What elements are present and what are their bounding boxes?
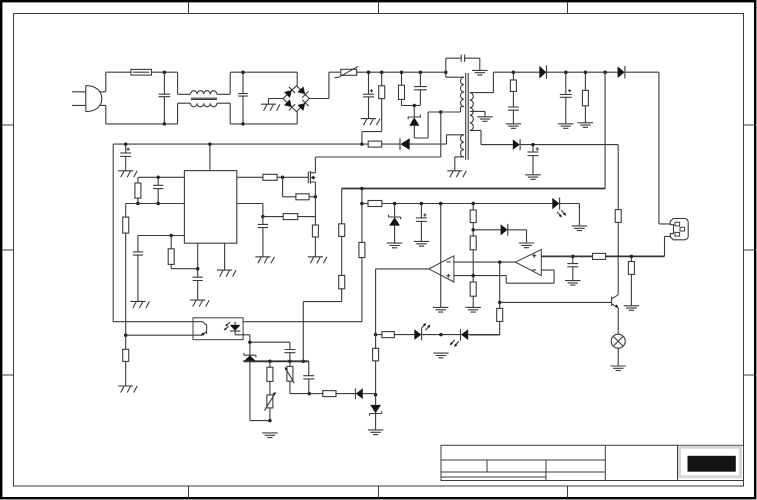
resistor R10 bbox=[168, 236, 198, 269]
diode D6 bbox=[355, 388, 375, 399]
resistor R27 bbox=[376, 332, 415, 338]
ground tap bbox=[477, 117, 492, 122]
wire opto cathode bbox=[243, 335, 250, 342]
diode D1 clamp zener bbox=[408, 106, 441, 139]
wire bottom AC bbox=[106, 123, 178, 125]
wire secondary top lead bbox=[470, 72, 514, 92]
node out LED bbox=[374, 333, 378, 337]
wire U1 bottom pin2 bbox=[224, 243, 226, 270]
resistor R21 bbox=[359, 242, 365, 321]
resistor R26 bbox=[469, 302, 502, 335]
trimmer RV1 bbox=[264, 392, 276, 421]
ground C14 bbox=[414, 241, 429, 246]
resistor R8 bbox=[135, 177, 141, 203]
trimmer RV2 bbox=[285, 361, 310, 393]
title block bbox=[441, 445, 744, 480]
capacitor C13 bbox=[303, 361, 314, 393]
ground R25 bbox=[466, 307, 481, 312]
ground (earth) C10 bbox=[190, 300, 209, 307]
resistor R11 gate bbox=[263, 174, 308, 180]
wire drain to winding bbox=[441, 107, 464, 112]
diode D2 output bbox=[513, 66, 617, 79]
divider chain R19/R20 bbox=[339, 189, 345, 302]
capacitor C14 electrolytic bbox=[416, 204, 427, 242]
capacitor C11 bbox=[258, 217, 268, 257]
wire secondary bottom lead bbox=[470, 130, 513, 144]
ground opamp1 bbox=[433, 307, 448, 312]
resistor R3 snubber sec bbox=[510, 72, 516, 107]
wire top AC bbox=[106, 71, 131, 73]
wire base drive bbox=[500, 262, 612, 302]
fuse F1 bbox=[131, 69, 152, 75]
ground CY1 bbox=[472, 70, 487, 75]
sense feed wire U4B plus bbox=[541, 255, 573, 257]
diode D9 bbox=[473, 224, 526, 243]
ground (earth) U1 bbox=[217, 270, 236, 277]
ground C5 bbox=[525, 175, 540, 180]
resistor R14 current sense bbox=[312, 225, 318, 257]
lamp DS1 bbox=[611, 334, 625, 366]
wire TL431 anode bbox=[250, 361, 270, 420]
logo black mark bbox=[688, 456, 736, 472]
resistor R5 aux drop bbox=[615, 210, 621, 295]
resistor R2 snubber bbox=[399, 72, 405, 105]
resistor R25 bbox=[470, 276, 476, 308]
reference rail bbox=[243, 360, 309, 362]
capacitor C10 bbox=[193, 277, 203, 300]
resistor R28 line1 end bbox=[373, 335, 379, 405]
wire bridge plus up bbox=[309, 72, 340, 98]
ground (earth) R14 bbox=[308, 257, 327, 264]
resistor R22 bbox=[368, 201, 382, 207]
node Vout sense bbox=[603, 70, 607, 74]
resistor R1 startup bbox=[362, 72, 385, 144]
capacitor CY1 bbox=[446, 55, 480, 73]
resistor R16 bbox=[123, 335, 129, 386]
capacitor C1 bulk electrolytic bbox=[363, 72, 374, 118]
wire U1 bottom pin1 bbox=[197, 243, 199, 277]
resistor R6 sense series bbox=[593, 253, 606, 259]
capacitor C9 bbox=[133, 236, 143, 302]
resistor R12 gate2 bbox=[283, 177, 316, 200]
wire choke to bridge bottom bbox=[230, 112, 297, 124]
optocoupler U2 bbox=[193, 318, 243, 340]
capacitor C7 Vcc electrolytic bbox=[120, 144, 131, 171]
resistor R18 bbox=[309, 391, 355, 397]
LED D10 bbox=[414, 323, 460, 340]
wire secondary tap to ground bbox=[470, 111, 485, 116]
capacitor C5 electrolytic aux bbox=[528, 145, 539, 175]
line2 bus bbox=[362, 203, 580, 205]
divider R23/R24 bbox=[470, 204, 476, 276]
Vcc feed resistor R15 bbox=[360, 141, 400, 147]
wire U1 Vcc pin bbox=[209, 144, 211, 171]
ground R7 bbox=[624, 306, 639, 311]
wire U1 right pin2 bbox=[237, 204, 263, 217]
ground (earth) bridge bbox=[261, 104, 280, 111]
ground D9 bbox=[519, 243, 534, 248]
wire HV node to primary top bbox=[446, 72, 464, 77]
op-amp U4A bbox=[429, 256, 454, 282]
node dots CX2 bbox=[241, 70, 245, 74]
LED D8 indicator bbox=[552, 198, 579, 226]
Vcc bus bbox=[113, 143, 362, 145]
feedback bus line1 bbox=[342, 188, 605, 190]
sense line bbox=[541, 255, 664, 257]
ground D12 bbox=[368, 430, 383, 435]
ground lamp bbox=[611, 366, 626, 371]
wire U4A plus node bbox=[454, 270, 554, 283]
diode D4 lower rail bbox=[513, 139, 618, 210]
TL431 U3 bbox=[244, 342, 256, 361]
IC U1 PWM controller bbox=[184, 171, 236, 244]
ground R17 chain bbox=[262, 433, 277, 438]
zener D7 bbox=[389, 204, 401, 243]
DC connector J1 bbox=[670, 219, 688, 240]
MOSFET Q2 bbox=[308, 157, 315, 225]
wire bridge minus to ground bbox=[269, 99, 284, 105]
ground (earth) C9 bbox=[130, 301, 149, 308]
LED D11 bbox=[450, 329, 500, 347]
common mode choke L1 bbox=[178, 72, 231, 124]
diode D3 isolation bbox=[618, 66, 671, 224]
node dots CX1 bbox=[163, 70, 167, 74]
ground C3 bbox=[506, 124, 521, 129]
wire choke to bridge top bbox=[230, 72, 297, 86]
wire U1 left pin2 bbox=[126, 203, 185, 205]
node drain bbox=[439, 110, 443, 114]
capacitor C6 sense bbox=[567, 256, 578, 280]
ground R4 bbox=[578, 123, 593, 128]
wire U1 right pin1 gate drive bbox=[237, 176, 263, 178]
wire aux bottom lead to ground bbox=[455, 157, 464, 171]
wire U1 left pin1 bbox=[138, 176, 185, 178]
resistor R17 bbox=[267, 361, 273, 395]
wire U4B out to U4A inv bbox=[454, 261, 515, 263]
wire fuse to node bbox=[152, 71, 178, 73]
wire opto emitter run bbox=[126, 334, 202, 336]
zener D12 bbox=[370, 405, 382, 430]
resistor R4 bleeder bbox=[582, 72, 588, 122]
resistor R9 feedback bbox=[123, 217, 129, 335]
thermistor RT1 bbox=[335, 66, 359, 77]
ground (earth) R16 bbox=[118, 386, 137, 393]
ground C4 bbox=[558, 124, 573, 129]
line2 feed bbox=[361, 189, 363, 243]
wire comp node bbox=[250, 341, 290, 343]
diode D5 aux rectifier bbox=[400, 138, 447, 150]
capacitor C3 snubber sec bbox=[508, 107, 519, 124]
op-amp U4B bbox=[515, 250, 541, 276]
capacitor C8 bbox=[153, 177, 163, 203]
wire Vout sense drop bbox=[604, 72, 606, 188]
wire HV bus bbox=[357, 71, 446, 73]
AC plug P1 bbox=[72, 72, 106, 124]
ground (earth) C1 bbox=[361, 119, 380, 126]
ground (earth) aux bbox=[447, 171, 466, 178]
feedback drop line bbox=[125, 204, 127, 218]
ground C6 bbox=[565, 281, 580, 286]
ground D8 bbox=[572, 226, 587, 231]
wire drain run bbox=[315, 112, 440, 157]
logo box bbox=[680, 447, 741, 477]
wire connector pin2 bbox=[665, 236, 671, 256]
ground (earth) C11 bbox=[255, 257, 274, 264]
resistor R7 sense load bbox=[628, 256, 634, 305]
bridge rectifier BR1 bbox=[283, 86, 309, 112]
wire rail vertical feed bbox=[303, 302, 341, 362]
ground D7 bbox=[387, 243, 402, 248]
opamp supply drop bbox=[440, 204, 442, 308]
wire U4A output bbox=[376, 269, 429, 335]
wire U1 left pin3 bbox=[138, 235, 185, 237]
transistor Q1 bbox=[612, 295, 619, 334]
capacitor CX2 bbox=[238, 72, 248, 124]
wire opto collector run bbox=[113, 144, 202, 322]
capacitor C4 electrolytic out bbox=[560, 72, 572, 123]
capacitor CX1 bbox=[159, 72, 171, 124]
wire snubber node bbox=[402, 105, 421, 107]
node line1/line2 bbox=[360, 187, 364, 191]
transformer T1 bbox=[460, 73, 473, 160]
capacitor C2 snubber bbox=[414, 72, 427, 105]
ground LED mid bbox=[433, 353, 448, 358]
capacitor C12 comp bbox=[284, 342, 295, 361]
wire aux top lead bbox=[447, 135, 465, 144]
ground (earth) C7 bbox=[118, 171, 137, 178]
resistor R13 bbox=[263, 214, 316, 220]
wire opto anode feed bbox=[243, 321, 362, 323]
